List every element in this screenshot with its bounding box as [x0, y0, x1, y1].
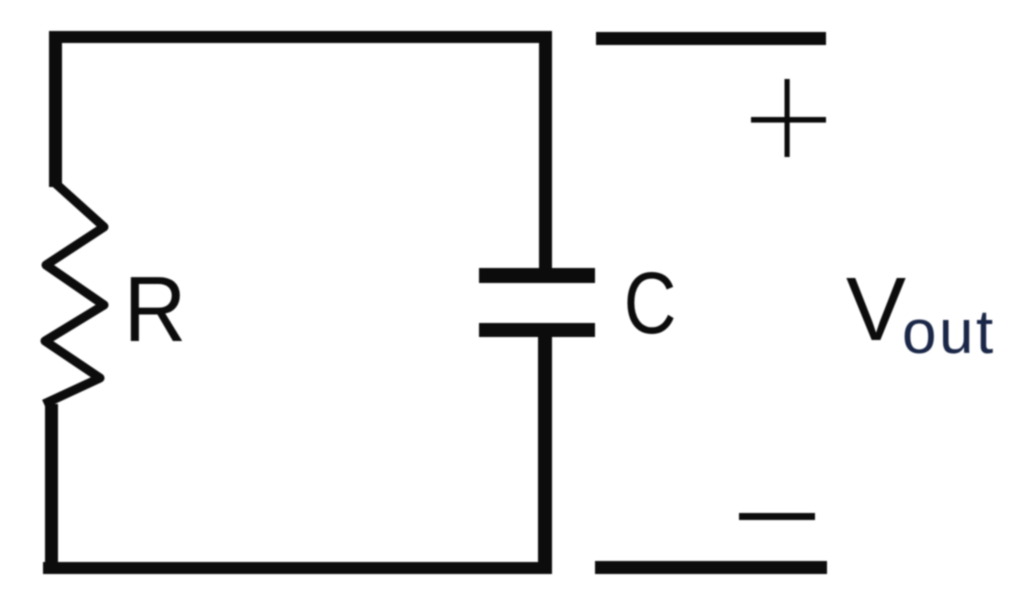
svg-text:V: V [846, 260, 906, 360]
wire: left vertical from top wire down to resistor [49, 31, 62, 187]
wire: top-right output segment (+ terminal lead) [596, 32, 826, 45]
wire: bottom node between R bottom and C bottom [43, 562, 548, 574]
wire: bottom-right output segment (− terminal lead) [595, 561, 827, 574]
resistor R zigzag body [44, 182, 104, 404]
wire: left vertical from resistor to bottom wire [45, 404, 58, 574]
plus sign (+ terminal mark) [751, 79, 826, 157]
capacitor C top lead wire [539, 37, 552, 270]
capacitor C top plate [479, 268, 595, 283]
capacitor C bottom lead wire [538, 330, 552, 574]
svg-text:R: R [124, 258, 186, 362]
svg-text:C: C [624, 255, 677, 353]
svg-text:out: out [902, 298, 996, 367]
minus sign (− terminal mark) [739, 513, 815, 520]
label Vout [846, 260, 996, 367]
capacitor C bottom plate [479, 323, 595, 337]
wire: top node between R top and C top [49, 31, 552, 43]
